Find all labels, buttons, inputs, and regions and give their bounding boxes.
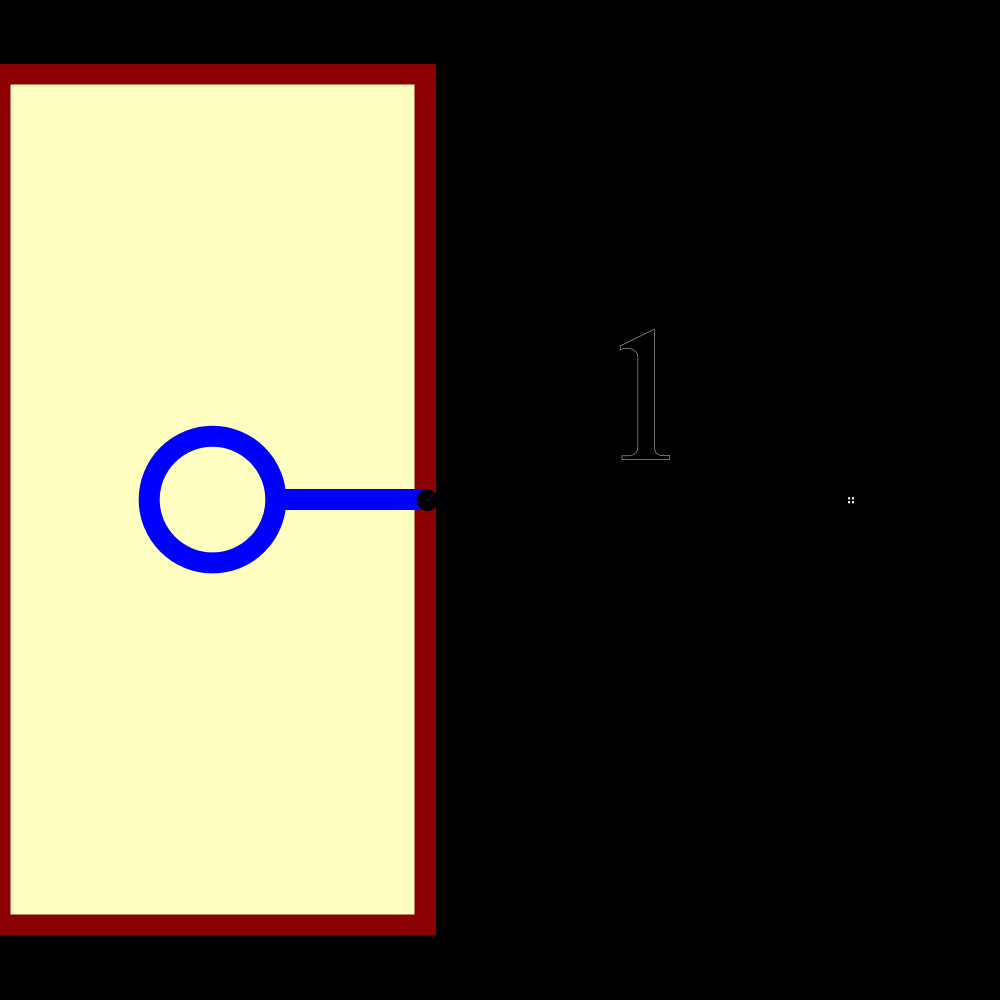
wire (pin 1 lead from circle to box edge): [272, 489, 427, 510]
component U1 body fill: [11, 85, 415, 915]
cursor marker (2x2 white dots): [848, 497, 854, 503]
component U1 body outline (maroon box border): [0, 64, 436, 936]
junction dot (pin 1 endpoint): [417, 490, 438, 511]
pin 1 circle (blue pin symbol): [149, 436, 276, 563]
pin number label 1: [620, 329, 669, 459]
